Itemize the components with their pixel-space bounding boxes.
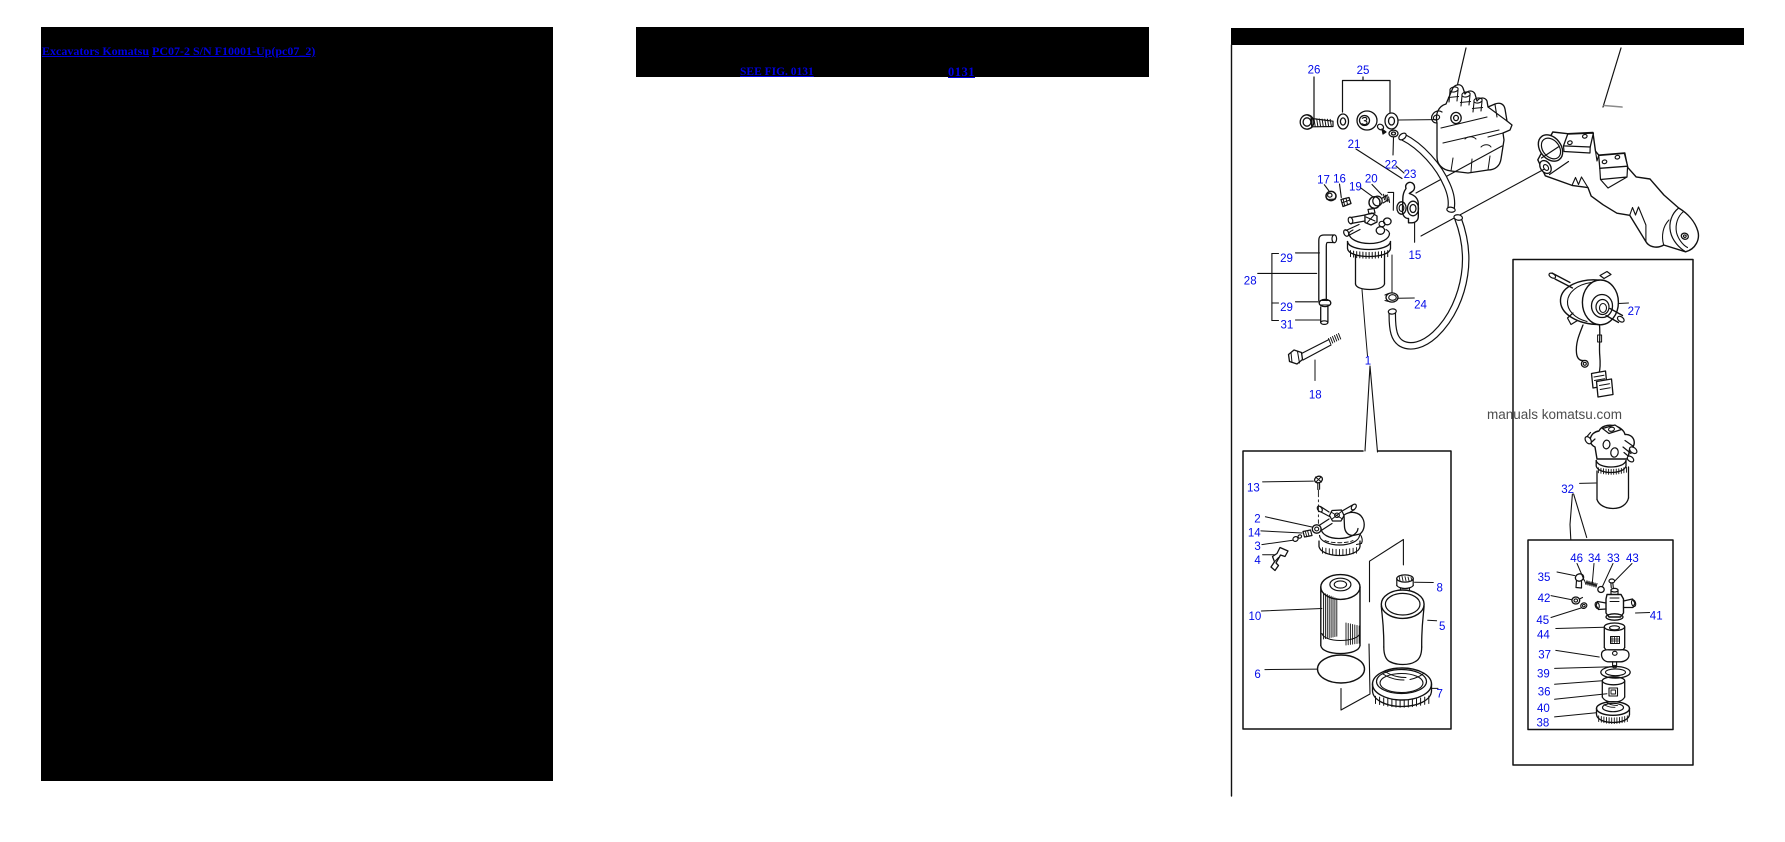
manifold inner notches: [1572, 177, 1588, 188]
valve body 41: [1606, 595, 1624, 618]
leader 24: [1398, 297, 1414, 299]
leader 32: [1580, 482, 1596, 484]
screw 43: [1609, 579, 1615, 583]
svg-text:2: 2: [1254, 514, 1260, 526]
svg-text:31: 31: [1281, 320, 1294, 332]
washer 25a: [1338, 114, 1349, 129]
filter 32 head: [1590, 425, 1634, 459]
svg-text:21: 21: [1348, 139, 1361, 151]
pipe 31: [1321, 307, 1328, 322]
pointer V from 32: [1570, 494, 1587, 540]
elbow pipe: [1319, 235, 1334, 301]
sensor hub: [1592, 295, 1613, 318]
manifold body: [1538, 132, 1699, 252]
bowl 5: [1381, 590, 1424, 618]
svg-text:26: 26: [1308, 65, 1321, 77]
washer 25b: [1385, 113, 1398, 129]
long guide line bracket to pump: [1416, 146, 1502, 193]
leader 5: [1428, 619, 1437, 622]
leader 6: [1265, 668, 1318, 671]
svg-text:29: 29: [1280, 253, 1293, 265]
sensor bottom tab: [1568, 313, 1578, 325]
ring nut 7: [1373, 668, 1432, 700]
cock 35: [1574, 573, 1584, 583]
middle links: [740, 66, 814, 78]
leader 26: [1313, 77, 1315, 118]
pump flange circle: [1451, 112, 1461, 123]
svg-text:15: 15: [1409, 250, 1422, 262]
svg-text:25: 25: [1357, 65, 1370, 77]
petcock 4: [1271, 548, 1288, 571]
hose clamp 29 lower: [1319, 299, 1331, 306]
element 44: [1604, 623, 1624, 631]
head lower-left port: [1346, 225, 1360, 236]
svg-text:36: 36: [1538, 687, 1551, 699]
leader 15: [1414, 223, 1416, 243]
left border line: [1231, 45, 1233, 796]
svg-text:8: 8: [1436, 583, 1442, 595]
filter head cross fitting: [1365, 213, 1377, 225]
ball 33: [1598, 587, 1604, 593]
bolt 26: [1300, 115, 1314, 129]
svg-text:14: 14: [1248, 527, 1261, 539]
screw 13: [1314, 475, 1324, 484]
svg-text:45: 45: [1536, 615, 1549, 627]
pointer V from 1 to inset: [1365, 366, 1378, 452]
inset corner lines bottom: [1341, 644, 1370, 710]
bracket lines 28/29/31: [1271, 254, 1273, 321]
upper hose: [1403, 137, 1451, 209]
leader 10: [1261, 609, 1322, 612]
manifold boss: [1542, 147, 1569, 175]
injection pump body: [1436, 85, 1512, 173]
cap 8: [1397, 575, 1413, 582]
manifold plate 2: [1599, 153, 1628, 168]
cock chain 2/14/3: [1265, 517, 1312, 527]
svg-text:29: 29: [1280, 302, 1293, 314]
svg-text:4: 4: [1254, 555, 1261, 567]
right inner box: [1528, 540, 1673, 730]
svg-text:6: 6: [1254, 669, 1260, 681]
head right ports: [1623, 441, 1634, 454]
head face holes: [1602, 440, 1610, 450]
leader 7: [1432, 687, 1438, 689]
svg-text:34: 34: [1588, 553, 1601, 565]
manifold plate 1: [1564, 133, 1594, 147]
cartridge 32: [1597, 467, 1629, 500]
lower hose: [1392, 219, 1465, 346]
svg-text:37: 37: [1538, 650, 1551, 662]
sensor 27 body: [1560, 280, 1600, 325]
svg-text:27: 27: [1628, 306, 1641, 318]
leader 18: [1314, 360, 1316, 381]
middle banner placeholder (black): [636, 27, 1149, 77]
inset head casting: [1330, 510, 1345, 521]
long guide line boss to bracket: [1421, 169, 1545, 236]
inset corner lines top: [1370, 540, 1404, 602]
leader 22-23: [1396, 166, 1404, 173]
leader 27: [1619, 302, 1629, 305]
leader 1: [1362, 290, 1368, 357]
svg-text:35: 35: [1538, 572, 1551, 584]
pump delivery stubs: [1449, 90, 1458, 102]
svg-text:24: 24: [1414, 300, 1427, 312]
svg-text:46: 46: [1570, 553, 1583, 565]
svg-text:manuals komatsu.com: manuals komatsu.com: [1487, 407, 1622, 422]
svg-text:44: 44: [1537, 630, 1550, 642]
inset head dome: [1321, 529, 1358, 539]
inset head flange stack: [1320, 536, 1360, 546]
sensor top tab: [1600, 272, 1611, 279]
inset head right bell: [1344, 512, 1364, 535]
head left port: [1351, 215, 1365, 224]
svg-text:5: 5: [1439, 621, 1445, 633]
svg-text:22: 22: [1385, 160, 1398, 172]
svg-text:19: 19: [1349, 182, 1362, 194]
left links: [42, 44, 315, 59]
inset head left ring: [1312, 525, 1321, 533]
serrated band 32: [1596, 461, 1626, 468]
svg-text:39: 39: [1537, 669, 1550, 681]
top black bar: [1231, 28, 1744, 45]
sensor nozzle: [1606, 309, 1623, 323]
clamp 24: [1386, 293, 1398, 302]
svg-text:20: 20: [1365, 174, 1378, 186]
svg-text:17: 17: [1317, 174, 1330, 186]
manifold lobe hole: [1680, 232, 1689, 240]
ring 39: [1601, 667, 1630, 679]
guide line bar to manifold: [1603, 48, 1621, 107]
svg-text:13: 13: [1247, 483, 1260, 495]
leader 21: [1356, 149, 1402, 179]
right outer box: [1513, 260, 1693, 766]
connector: [1592, 371, 1608, 388]
spacer (3): [1357, 111, 1377, 130]
diagram svg: [1225, 27, 1785, 842]
sealing ring at bracket: [1397, 202, 1406, 214]
float 37: [1602, 650, 1630, 662]
spring 34: [1585, 581, 1598, 588]
head top plate: [1603, 425, 1622, 434]
svg-text:7: 7: [1436, 689, 1442, 701]
banjo 42: [1572, 597, 1580, 604]
svg-text:3: 3: [1254, 541, 1260, 553]
svg-text:10: 10: [1249, 611, 1262, 623]
cup 36: [1602, 677, 1624, 685]
leader 13: [1263, 480, 1314, 483]
o-ring 6: [1318, 655, 1365, 683]
left inset box: [1243, 451, 1451, 729]
leaders inner box: [1557, 572, 1575, 576]
svg-text:42: 42: [1538, 593, 1551, 605]
bolt 45: [1580, 602, 1588, 609]
svg-text:41: 41: [1650, 611, 1663, 623]
head left port: [1587, 433, 1595, 444]
head right knobs: [1384, 218, 1392, 225]
sensor rod: [1552, 273, 1573, 288]
head dome: [1349, 233, 1390, 244]
manifold flange: [1533, 130, 1567, 166]
svg-text:28: 28: [1244, 276, 1257, 288]
svg-text:40: 40: [1537, 703, 1550, 715]
leader 8: [1415, 581, 1434, 583]
guide line bar to pump: [1450, 48, 1466, 117]
pump body lines: [1441, 117, 1503, 143]
left page image placeholder (black): [41, 27, 553, 781]
svg-text:18: 18: [1309, 389, 1322, 401]
ring nut 38: [1597, 702, 1630, 716]
svg-text:33: 33: [1607, 553, 1620, 565]
svg-text:38: 38: [1537, 717, 1550, 729]
wires: [1576, 325, 1583, 361]
line filter to clamp: [1391, 255, 1393, 293]
serrated ring (main): [1348, 242, 1391, 250]
bracket 15: [1403, 182, 1419, 222]
small plug: [1376, 123, 1384, 131]
leader washer to pump: [1399, 119, 1448, 122]
svg-text:23: 23: [1404, 169, 1417, 181]
manifold lobe cap: [1670, 208, 1686, 252]
element 10: [1321, 575, 1360, 600]
pump left ear: [1432, 111, 1442, 123]
ring 22: [1389, 130, 1398, 137]
filter bowl (main): [1356, 256, 1385, 285]
bolt 18: [1289, 350, 1303, 364]
svg-text:43: 43: [1626, 553, 1639, 565]
